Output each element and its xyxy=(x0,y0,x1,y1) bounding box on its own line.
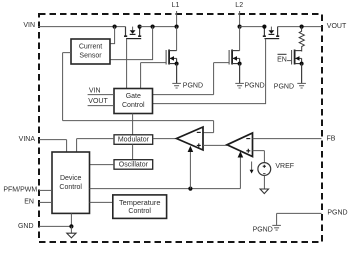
pin L2 label xyxy=(235,2,243,9)
wire current sensor top tap xyxy=(110,27,115,44)
svg-text:Gate: Gate xyxy=(126,93,141,100)
wire FB to error amplifier minus input xyxy=(253,138,322,140)
wire PFM/PWM xyxy=(39,189,52,191)
svg-text:FB: FB xyxy=(327,135,336,142)
op-amp A2 (error amplifier) xyxy=(227,133,253,157)
svg-text:Control: Control xyxy=(122,102,145,109)
node L1 dot xyxy=(175,25,179,29)
svg-text:PGND: PGND xyxy=(274,84,294,91)
label PGND (Q2 ground) xyxy=(183,83,203,90)
wire comparator B output to comparator A plus input xyxy=(203,144,227,146)
wire Modulator to Oscillator xyxy=(132,144,134,159)
svg-text:VIN: VIN xyxy=(23,22,35,29)
wire Modulator to Device Control xyxy=(77,139,114,152)
svg-text:VIN: VIN xyxy=(89,88,101,95)
pin label FB xyxy=(327,135,336,142)
pin label PGND (right) xyxy=(327,210,347,217)
wire current sensor output to comparator bus xyxy=(63,53,214,133)
label VOUT (gate control input) xyxy=(88,98,114,106)
pin label PFM/PWM xyxy=(3,187,37,194)
node Q5 source dot xyxy=(300,62,304,66)
svg-text:L1: L1 xyxy=(172,2,180,9)
svg-text:Oscillator: Oscillator xyxy=(119,161,149,168)
ground PGND (Q5) xyxy=(297,64,306,88)
wire Q1 gate to Gate Control xyxy=(126,39,128,89)
pin label VOUT xyxy=(327,23,347,30)
svg-text:GND: GND xyxy=(18,223,34,230)
wire Device Control soft-start bus to comparators xyxy=(90,158,241,189)
block: Gate Control xyxy=(114,89,153,114)
node L2 dot xyxy=(238,25,242,29)
wire Modulator to comparator A output xyxy=(153,138,177,140)
svg-text:VINA: VINA xyxy=(19,136,36,143)
transistor Q2 (buck low-side NMOS) xyxy=(166,27,177,65)
ground PGND (Q3) xyxy=(235,64,244,88)
svg-text:Control: Control xyxy=(128,208,151,215)
node bus dot (branch to comparator A) xyxy=(188,187,192,191)
node: current sensor tap dot xyxy=(113,25,117,29)
wire PGND pin xyxy=(277,213,322,225)
pin L1 label xyxy=(172,2,180,9)
pin label VINA xyxy=(19,136,36,143)
soft-start ramp arrow beside VREF xyxy=(250,162,254,174)
wire VIN rail to Q1 xyxy=(38,26,126,28)
label PGND (bottom ground) xyxy=(253,227,273,234)
svg-text:L2: L2 xyxy=(235,2,243,9)
wire rail Q1 to L1 xyxy=(140,26,177,28)
wire Device Control to Temperature Control xyxy=(90,201,113,203)
block: Modulator xyxy=(114,135,153,145)
wire GND xyxy=(39,213,71,226)
pin label VIN xyxy=(23,22,35,29)
wire L1 pin stub xyxy=(176,11,178,27)
wire error amplifier plus input to VREF xyxy=(253,151,265,163)
transistor Q5 (discharge FET, EN gated) xyxy=(287,50,302,65)
wire rail Q4 to VOUT xyxy=(278,26,322,28)
wire Oscillator to Device Control xyxy=(90,164,115,166)
wire sense right tap xyxy=(110,27,153,60)
node Q2 source dot xyxy=(175,62,179,66)
node Q3 source dot xyxy=(238,62,242,66)
wire Q2 gate to Gate Control xyxy=(141,63,167,89)
block: Temperature Control xyxy=(113,195,167,219)
wire VINA to Device Control xyxy=(39,140,67,152)
transistor Q3 (boost low-side NMOS) xyxy=(229,27,240,65)
arrowhead into comparator B xyxy=(238,151,244,157)
pin label GND xyxy=(18,223,34,230)
node GND dot xyxy=(69,224,73,228)
svg-text:Current: Current xyxy=(79,43,102,50)
svg-text:Device: Device xyxy=(60,175,82,182)
svg-text:PGND: PGND xyxy=(253,227,273,234)
wire Q3 gate to Gate Control xyxy=(153,63,230,95)
svg-text:PGND: PGND xyxy=(183,83,203,90)
node: Q1 body tie dot on rail xyxy=(138,25,142,29)
node VOUT dot xyxy=(300,25,304,29)
svg-text:Control: Control xyxy=(59,184,82,191)
svg-text:VREF: VREF xyxy=(275,163,294,170)
svg-text:PFM/PWM: PFM/PWM xyxy=(3,187,37,194)
pin label EN xyxy=(24,199,34,206)
block: Device Control xyxy=(52,152,90,213)
svg-text:PGND: PGND xyxy=(245,83,265,90)
label EN (active low) xyxy=(277,54,287,63)
svg-text:PGND: PGND xyxy=(327,210,347,217)
block: Oscillator xyxy=(114,160,153,170)
voltage source VREF xyxy=(258,163,271,176)
svg-text:Temperature: Temperature xyxy=(119,198,161,207)
block: Current Sensor xyxy=(71,39,110,64)
ground PGND (Q2) xyxy=(172,64,181,88)
resistor R1 (output discharge) xyxy=(299,27,304,52)
svg-text:Modulator: Modulator xyxy=(118,136,150,143)
wire Q4 gate to Gate Control xyxy=(153,39,266,104)
op-amp A1 (PWM comparator) xyxy=(177,127,204,150)
ground GND (signal ground, open triangle) xyxy=(67,226,76,238)
transistor Q1 (high-side buck FET, horizontal) xyxy=(124,27,141,39)
wire rail L2 to Q4 xyxy=(240,26,265,28)
ground (VREF, open triangle) xyxy=(260,175,268,193)
label PGND (Q5 ground) xyxy=(274,84,294,91)
svg-text:VOUT: VOUT xyxy=(327,23,347,30)
svg-text:EN: EN xyxy=(24,199,34,206)
IC boundary dashed border xyxy=(39,14,322,242)
wire Gate Control to Modulator xyxy=(132,114,134,135)
node: Q4 body tie dot on rail xyxy=(262,25,266,29)
transistor Q4 (output FET, horizontal) xyxy=(263,27,279,39)
wire branch up into comparator A xyxy=(188,146,194,189)
svg-text:VOUT: VOUT xyxy=(88,98,108,105)
label VREF xyxy=(275,163,294,170)
wire L2 pin stub xyxy=(239,11,241,27)
wire EN xyxy=(39,201,52,203)
svg-text:Sensor: Sensor xyxy=(79,52,102,59)
ground PGND (bottom) xyxy=(272,225,281,230)
label PGND (Q3 ground) xyxy=(245,83,265,90)
label VIN (gate control input) xyxy=(88,88,114,95)
svg-text:EN: EN xyxy=(277,56,287,63)
node: current sense right tap dot xyxy=(151,25,155,29)
